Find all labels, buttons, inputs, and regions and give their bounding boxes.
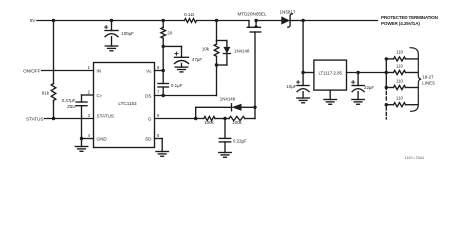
wire DS branch top tee: [217, 41, 227, 47]
node junction line resistor 3: [385, 86, 388, 89]
svg-text:110: 110: [396, 78, 404, 83]
resistor R5 100k: [229, 116, 245, 120]
svg-text:110: 110: [396, 50, 404, 55]
label ON/OFF input: [23, 68, 41, 73]
diode D2 1N4148: [223, 47, 230, 54]
node junction 22uF: [356, 71, 359, 74]
wire pin 4 GND stub: [82, 138, 94, 140]
wire 5V rail left: [37, 20, 184, 22]
label pin number 4: [88, 133, 91, 138]
svg-text:100µF: 100µF: [121, 31, 134, 36]
label protected termination power output: [381, 15, 438, 26]
resistor 110 ohm line 4: [386, 103, 418, 107]
svg-text:22µF: 22µF: [364, 85, 374, 90]
svg-text:GND: GND: [97, 136, 108, 141]
ground 22uF: [352, 92, 365, 105]
capacitor C5 0.22uF: [219, 119, 231, 142]
label pin GND: [97, 136, 108, 141]
resistor 110 ohm line 2: [386, 70, 418, 74]
wire termination bus: [385, 59, 387, 90]
wire DS branch to rail: [216, 21, 218, 41]
wire output rail to regulator: [302, 21, 304, 73]
diode D1 1N5817 schottky: [281, 14, 292, 27]
label pin number 5: [157, 133, 160, 138]
label 110 value line 1: [396, 50, 404, 55]
label pin DS: [145, 93, 151, 98]
diode D3 1N4148 gate: [232, 104, 242, 111]
svg-text:0.1µF: 0.1µF: [171, 83, 183, 88]
svg-text:6: 6: [157, 113, 160, 118]
wire gate diode branch: [196, 107, 232, 118]
node junction line resistor 2: [385, 71, 388, 74]
node junction DS sense: [215, 19, 218, 22]
label 0.47uF value: [62, 98, 76, 103]
label STATUS output: [26, 116, 43, 121]
svg-text:8: 8: [157, 65, 160, 70]
node junction 5V/91k: [52, 19, 55, 22]
svg-text:18-27: 18-27: [422, 75, 434, 80]
wire regulator input: [303, 72, 314, 74]
label pin IN: [97, 68, 102, 73]
ground 10uF: [297, 92, 310, 103]
wire CT cap to GND rail: [81, 106, 83, 139]
ground 100uF: [105, 37, 118, 51]
wire regulator ground lead: [329, 90, 331, 99]
label LTC1153 part number: [118, 101, 137, 106]
label 110 value line 3: [396, 78, 404, 83]
svg-text:5: 5: [157, 133, 160, 138]
label pin number 3: [88, 113, 91, 118]
svg-text:1N4148: 1N4148: [220, 97, 236, 102]
wire gate diode to riser: [242, 106, 256, 108]
node junction regulator input: [301, 71, 304, 74]
svg-text:Z5U: Z5U: [67, 104, 75, 109]
svg-text:1: 1: [88, 65, 91, 70]
label pin number 6: [157, 113, 160, 118]
label brace 18-27 lines bracket: [410, 48, 421, 112]
node junction 20ohm: [162, 19, 165, 22]
label 0.1 ohm value: [184, 12, 194, 17]
svg-text:MTD20N05EL: MTD20N05EL: [237, 12, 267, 17]
label 47uF value: [192, 57, 202, 62]
svg-text:110: 110: [396, 96, 404, 101]
label figure tag: [405, 156, 424, 160]
label pin SD: [145, 136, 152, 141]
ground SD pin: [156, 152, 169, 157]
wire output rail to label: [303, 20, 377, 22]
wire pin 5 SD stub: [155, 139, 163, 152]
node junction pin 8: [162, 69, 165, 72]
node junction 100uF: [110, 19, 113, 22]
label 10uF value: [286, 84, 296, 89]
wire VS filter to pin 8: [162, 46, 164, 70]
label pin VS: [146, 68, 152, 74]
capacitor C7 22uF: [352, 73, 365, 92]
wire diode cathode to output node: [290, 20, 303, 22]
wire gate riser Q1: [254, 32, 256, 107]
label 0.1uF value: [171, 83, 183, 88]
node junction gate riser: [253, 106, 256, 109]
svg-text:7: 7: [157, 90, 160, 95]
op-amp U2 LT1117-2.85 body: [314, 60, 347, 90]
svg-text:STATUS: STATUS: [97, 114, 114, 119]
wire STATUS to pin 3: [45, 118, 94, 120]
svg-text:PROTECTED TERMINATION: PROTECTED TERMINATION: [381, 15, 438, 20]
svg-text:STATUS: STATUS: [26, 116, 43, 121]
label 0.22uF value: [233, 138, 247, 143]
svg-text:47µF: 47µF: [192, 57, 202, 62]
resistor R4 100k: [204, 116, 215, 120]
svg-text:0.22µF: 0.22µF: [233, 138, 247, 143]
wire 100k to gate riser: [245, 107, 255, 118]
wire pin 8 stub: [155, 70, 164, 72]
wire regulator output: [347, 72, 387, 74]
wire pin 6 gate line: [155, 118, 204, 120]
svg-text:10µF: 10µF: [286, 84, 296, 89]
svg-text:100k: 100k: [204, 120, 214, 125]
label pin number 2: [88, 90, 91, 95]
capacitor C6 10uF: [297, 73, 310, 92]
node junction VS filter: [162, 45, 165, 48]
label 91k value: [42, 91, 50, 96]
svg-text:3: 3: [88, 113, 91, 118]
ground IC GND: [75, 139, 88, 152]
node junction line resistor 1: [385, 57, 388, 60]
ground 0.22uF: [219, 142, 232, 157]
wire 91k to STATUS: [53, 101, 55, 119]
svg-text:CT: CT: [97, 93, 103, 99]
capacitor C4 0.1uF: [158, 71, 169, 96]
wire diode to branch bottom: [217, 54, 227, 66]
wire source rail to diode: [256, 20, 282, 22]
resistor R2 20 ohm: [161, 21, 166, 47]
svg-text:DS: DS: [145, 93, 151, 98]
label diode 1N5817: [279, 9, 296, 14]
svg-text:1153 • TA04: 1153 • TA04: [405, 156, 424, 160]
node 5V supply label: [30, 18, 37, 23]
node junction pin 7: [162, 94, 165, 97]
label 20 ohm value: [167, 31, 172, 36]
resistor 110 ohm line 1: [386, 57, 418, 61]
resistor 110 ohm line 3: [386, 85, 418, 89]
svg-text:IN: IN: [97, 68, 102, 73]
wire pin 2 CT stub: [82, 95, 94, 102]
label 18-27 LINES text: [422, 75, 435, 86]
svg-text:1N5817: 1N5817: [279, 9, 296, 14]
ground 47uF: [175, 64, 188, 72]
node junction line resistor 4: [385, 103, 388, 106]
op-amp U1 LTC1153 body: [94, 63, 155, 148]
capacitor C1 100uF: [105, 21, 119, 37]
capacitor C3 47uF: [175, 52, 189, 64]
label pin STATUS: [97, 114, 114, 119]
svg-text:0.1Ω: 0.1Ω: [184, 12, 194, 17]
label pin CT: [97, 93, 103, 99]
svg-text:SD: SD: [145, 136, 152, 141]
label pin G: [148, 116, 152, 121]
ground regulator: [324, 100, 337, 105]
wire termination bus dashed upper: [385, 92, 387, 103]
label LT1117-2.85 part number: [318, 70, 342, 75]
svg-text:10k: 10k: [202, 47, 210, 52]
label pin number 1: [88, 65, 91, 70]
label 1N4148 gate diode: [220, 97, 236, 102]
node junction DS branch bottom: [215, 63, 218, 66]
wire rail to MOSFET drain: [198, 20, 250, 22]
label Z5U type: [67, 104, 75, 109]
label 100k value R4: [204, 120, 214, 125]
wire 5V to ON/OFF crossing: [53, 21, 55, 84]
svg-text:20: 20: [167, 31, 172, 36]
node junction gate mid: [223, 117, 226, 120]
wire between 100k resistors: [215, 118, 229, 120]
svg-text:100k: 100k: [232, 120, 242, 125]
resistor R3 10k: [214, 41, 219, 66]
label 22uF value: [364, 85, 374, 90]
svg-text:0.47µF: 0.47µF: [62, 98, 76, 103]
label pin number 8: [157, 65, 160, 70]
node junction gate diode left: [194, 117, 197, 120]
svg-text:LINES: LINES: [422, 81, 435, 86]
svg-text:POWER (4.25V/1A): POWER (4.25V/1A): [381, 21, 420, 26]
label MOSFET MTD20N05EL: [237, 12, 267, 17]
resistor R1 91k: [51, 84, 56, 101]
svg-text:2: 2: [88, 90, 91, 95]
transistor Q1 MOSFET body: [247, 21, 260, 33]
label 10k value: [202, 47, 210, 52]
node output junction: [301, 19, 304, 22]
label 100k value R5: [232, 120, 242, 125]
svg-text:ON/OFF: ON/OFF: [23, 68, 41, 73]
wire to 47uF cap: [163, 46, 181, 57]
svg-text:G: G: [148, 116, 152, 121]
label 100uF value: [121, 31, 134, 36]
label 110 value line 4: [396, 96, 404, 101]
svg-text:1N4148: 1N4148: [234, 48, 250, 53]
node junction STATUS/91k: [52, 117, 55, 120]
svg-text:110: 110: [396, 63, 404, 68]
label 1N4148 value: [234, 48, 250, 53]
label pin number 7: [157, 90, 160, 95]
node MOSFET source junction: [254, 19, 257, 22]
svg-text:91k: 91k: [42, 91, 50, 96]
svg-text:4: 4: [88, 133, 91, 138]
svg-text:VS: VS: [146, 68, 152, 74]
svg-text:5V: 5V: [30, 18, 37, 23]
wire pin 7 stub and DS line: [155, 65, 217, 96]
svg-text:LT1117-2.85: LT1117-2.85: [318, 70, 342, 75]
node junction GND/CT: [80, 137, 83, 140]
resistor R sense 0.1 ohm: [185, 19, 197, 23]
svg-text:LTC1153: LTC1153: [118, 101, 137, 106]
wire ON/OFF to pin 1: [42, 70, 94, 72]
wire termination bus dashed lower: [385, 107, 387, 119]
capacitor C2 0.47uF Z5U: [76, 102, 87, 106]
label 110 value line 2: [396, 63, 404, 68]
